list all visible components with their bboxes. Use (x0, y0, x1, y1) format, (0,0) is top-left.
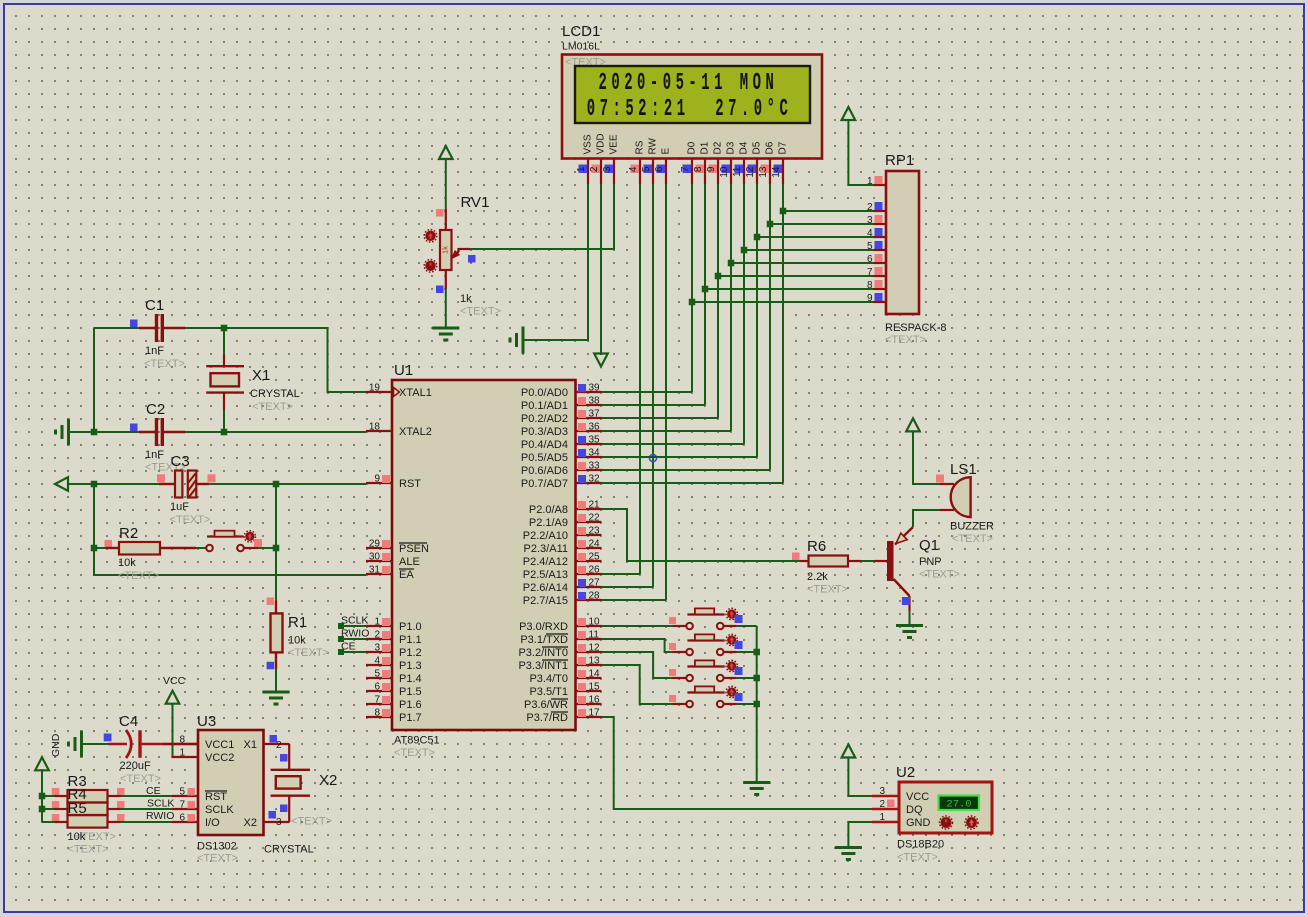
svg-text:5: 5 (179, 787, 185, 798)
ground at C2 left (69, 431, 94, 433)
svg-text:VCC: VCC (906, 791, 929, 803)
wire to XTAL1 (224, 328, 366, 392)
LCD LCD1 screen (575, 66, 810, 123)
svg-text:DS1302: DS1302 (197, 841, 237, 853)
junction D1/RP1 (702, 286, 709, 293)
LCD pin 11 D4 (743, 159, 745, 185)
U1 pin 33 P0.6/AD6 (576, 469, 602, 471)
svg-text:6: 6 (179, 813, 185, 824)
svg-text:36: 36 (589, 422, 601, 433)
wire VCC to LS1 (913, 432, 940, 485)
svg-text:RV1: RV1 (461, 194, 490, 211)
wire RP1 pin3 (770, 223, 874, 225)
svg-text:D3: D3 (726, 141, 737, 154)
RP1 pin 5 (874, 249, 887, 251)
svg-text:EA: EA (399, 569, 414, 581)
U1 pin 27 P2.6/A14 (576, 586, 602, 588)
U3 pin 7 SCLK (172, 808, 198, 810)
svg-text:P3.1/TXD: P3.1/TXD (520, 634, 568, 646)
svg-text:<TEXT>: <TEXT> (197, 853, 238, 865)
svg-text:C4: C4 (119, 713, 138, 730)
svg-text:P2.6/A14: P2.6/A14 (523, 582, 568, 594)
U1 pin 21 P2.0/A8 (576, 508, 602, 510)
svg-text:7: 7 (179, 800, 185, 811)
wire VDD to power-down (600, 184, 602, 355)
svg-text:CRYSTAL: CRYSTAL (264, 844, 314, 856)
svg-text:4: 4 (628, 166, 639, 172)
U1 pin 39 P0.0/AD0 (576, 391, 602, 393)
svg-text:<TEXT>: <TEXT> (807, 584, 848, 596)
svg-text:X1: X1 (244, 739, 257, 751)
power arrow down (VDD) (594, 354, 608, 367)
wire RV1 bottom to ground (445, 289, 447, 328)
wire P2.0 to R6 (602, 509, 801, 561)
LCD pin 4 RS (639, 159, 641, 185)
svg-text:<TEXT>: <TEXT> (897, 852, 938, 864)
U1 pin 25 P2.4/A12 (576, 560, 602, 562)
svg-text:P0.4/AD4: P0.4/AD4 (521, 439, 568, 451)
svg-text:6: 6 (654, 166, 665, 172)
svg-text:<TEXT>: <TEXT> (68, 844, 109, 856)
svg-text:2: 2 (879, 799, 885, 810)
junction D5/RP1 (754, 234, 761, 241)
svg-text:10k: 10k (68, 831, 86, 843)
wire RP1 pin9 (692, 301, 874, 303)
svg-text:35: 35 (589, 435, 601, 446)
svg-text:P2.7/A15: P2.7/A15 (523, 595, 568, 607)
U3 pin 5 RST (172, 795, 198, 797)
wire U2 GND to ground (848, 822, 872, 848)
wire C1-C2 left vertical (93, 328, 95, 432)
svg-text:1nF: 1nF (145, 449, 164, 461)
push button at P3.1 (673, 651, 687, 653)
svg-text:2020-05-11 MON: 2020-05-11 MON (599, 69, 779, 96)
svg-text:2: 2 (374, 630, 380, 641)
svg-text:Q1: Q1 (919, 537, 939, 554)
wire P0.1 to D1 (602, 404, 706, 406)
svg-text:R2: R2 (119, 525, 138, 542)
wire VCC down to U3 pin1 (173, 704, 199, 757)
wire P0.5 to D5 (602, 456, 758, 458)
wire D5 vertical (756, 184, 758, 457)
svg-text:15: 15 (589, 682, 601, 693)
transistor Q1 (874, 560, 887, 562)
U1 pin 15 P3.5/T1 (576, 690, 602, 692)
ground at buttons (743, 781, 770, 784)
wire VCC to U2 (848, 758, 872, 797)
svg-text:1nF: 1nF (145, 345, 164, 357)
svg-text:7: 7 (374, 695, 380, 706)
wire D1 vertical (704, 184, 706, 405)
wire D2 vertical (717, 184, 719, 418)
svg-text:31: 31 (369, 565, 381, 576)
U2 up button (966, 817, 977, 828)
wire X1 bottom (223, 410, 225, 432)
svg-text:LM016L: LM016L (562, 41, 600, 53)
svg-text:2.2k: 2.2k (807, 571, 828, 583)
wire RP1 pin6 (731, 262, 874, 264)
wire P0.0 to D0 (602, 391, 693, 393)
svg-text:RW: RW (648, 137, 659, 154)
svg-text:12: 12 (589, 643, 601, 654)
svg-text:P2.5/A13: P2.5/A13 (523, 569, 568, 581)
U1 pin 16 P3.6/WR (576, 703, 602, 705)
ground at U2 (835, 846, 862, 849)
svg-text:U1: U1 (394, 362, 413, 379)
svg-text:BUZZER: BUZZER (950, 521, 994, 533)
ground at RV1 (432, 327, 459, 330)
U2 temperature display (939, 796, 980, 811)
U1 pin 10 P3.0/RXD (576, 625, 602, 627)
junction D2/RP1 (715, 273, 722, 280)
svg-text:25: 25 (589, 552, 601, 563)
svg-text:P0.0/AD0: P0.0/AD0 (521, 387, 568, 399)
wire E vertical (665, 184, 667, 600)
svg-text:3: 3 (276, 817, 282, 828)
svg-text:<TEXT>: <TEXT> (460, 306, 501, 318)
resistor pack RP1 body (886, 171, 919, 314)
svg-text:33: 33 (589, 461, 601, 472)
svg-text:4: 4 (374, 656, 380, 667)
svg-text:P1.0: P1.0 (399, 621, 422, 633)
svg-text:D5: D5 (752, 141, 763, 154)
svg-text:CRYSTAL: CRYSTAL (250, 388, 300, 400)
svg-text:5: 5 (641, 166, 652, 172)
svg-text:11: 11 (589, 630, 600, 641)
U1 pin 37 P0.2/AD2 (576, 417, 602, 419)
U2 pin 3 VCC (872, 795, 899, 797)
svg-text:RESPACK-8: RESPACK-8 (885, 322, 947, 334)
wire D0 vertical (691, 184, 693, 392)
net label SCLK at P1.0 (338, 623, 344, 629)
svg-text:ALE: ALE (399, 556, 420, 568)
svg-text:28: 28 (589, 591, 601, 602)
svg-text:E: E (661, 148, 672, 155)
U2 pin 1 GND (872, 821, 899, 823)
ground at VSS (522, 327, 525, 354)
svg-text:C1: C1 (145, 297, 164, 314)
LCD pin 2 VDD (600, 159, 602, 185)
U3 pin 1 VCC2 (172, 756, 198, 758)
svg-text:1k: 1k (460, 293, 472, 305)
LCD pin 8 D1 (704, 159, 706, 185)
svg-text:LCD1: LCD1 (562, 23, 600, 40)
wire Q1 collector to ground (909, 611, 911, 626)
wire C2 row (94, 431, 139, 433)
wire D7 vertical (782, 184, 784, 483)
U1 pin 9 RST (366, 482, 392, 484)
RP1 pin 3 (874, 223, 887, 225)
svg-text:11: 11 (732, 166, 743, 177)
svg-text:<TEXT>: <TEXT> (291, 816, 332, 828)
svg-text:38: 38 (589, 396, 601, 407)
svg-text:16: 16 (589, 695, 601, 706)
svg-text:13: 13 (758, 166, 769, 178)
RP1 pin 9 (874, 301, 887, 303)
svg-text:VCC: VCC (163, 675, 186, 687)
svg-text:9: 9 (374, 474, 380, 485)
junction D6/RP1 (767, 221, 774, 228)
LCD pin 5 RW (652, 159, 654, 185)
svg-text:6: 6 (374, 682, 380, 693)
wire C2 to XTAL2 (185, 431, 366, 433)
svg-text:30: 30 (369, 552, 381, 563)
U3 pin 6 I/O (172, 821, 198, 823)
svg-text:I/O: I/O (205, 817, 220, 829)
wire RP1 pin8 (705, 288, 874, 290)
svg-text:X2: X2 (244, 817, 257, 829)
svg-text:<TEXT>: <TEXT> (288, 647, 329, 659)
svg-text:32: 32 (589, 474, 601, 485)
svg-text:<TEXT>: <TEXT> (252, 401, 293, 413)
svg-text:P0.7/AD7: P0.7/AD7 (521, 478, 568, 490)
wire RP1 pin4 (757, 236, 874, 238)
svg-text:P3.4/T0: P3.4/T0 (529, 673, 568, 685)
svg-text:24: 24 (589, 539, 601, 550)
svg-text:P1.7: P1.7 (399, 712, 422, 724)
junction D3/RP1 (728, 260, 735, 267)
power arrow VCC at C4 (166, 691, 180, 704)
junction D7/RP1 (780, 208, 787, 215)
wire C1 to X1 junction (185, 327, 224, 329)
svg-text:C2: C2 (146, 401, 165, 418)
U3 pin 2 X1 wire (264, 743, 290, 745)
wire GND to C4 (82, 743, 109, 745)
LCD pin 1 VSS (587, 159, 589, 185)
svg-text:VEE: VEE (609, 134, 620, 154)
svg-text:RWIO: RWIO (341, 628, 369, 640)
svg-text:P1.5: P1.5 (399, 686, 422, 698)
U1 pin 12 P3.2/INT0 (576, 651, 602, 653)
U1 pin 30 ALE (366, 560, 392, 562)
power arrow VCC at U2 (842, 745, 856, 758)
RP1 pin 2 (874, 210, 887, 212)
svg-text:P0.5/AD5: P0.5/AD5 (521, 452, 568, 464)
net label CE at P1.2 (338, 649, 344, 655)
wire P0.3 to D3 (602, 430, 732, 432)
svg-text:P2.2/A10: P2.2/A10 (523, 530, 568, 542)
wire D3 vertical (730, 184, 732, 431)
svg-text:R6: R6 (807, 538, 826, 555)
U1 pin 35 P0.4/AD4 (576, 443, 602, 445)
svg-text:<TEXT>: <TEXT> (170, 514, 211, 526)
svg-text:1uF: 1uF (170, 501, 189, 513)
junction D0/RP1 (689, 299, 696, 306)
svg-text:29: 29 (369, 539, 381, 550)
U1 pin 19 XTAL1 (366, 391, 392, 393)
U1 pin 6 P1.5 (366, 690, 392, 692)
svg-text:8: 8 (693, 166, 704, 172)
svg-text:2: 2 (589, 166, 600, 172)
svg-text:XTAL1: XTAL1 (399, 387, 432, 399)
svg-text:2: 2 (276, 740, 282, 751)
svg-text:1k: 1k (441, 246, 450, 254)
svg-text:10: 10 (719, 166, 730, 178)
svg-text:RP1: RP1 (885, 152, 914, 169)
U1 pin 24 P2.3/A11 (576, 547, 602, 549)
U1 pin 1 P1.0 (366, 625, 392, 627)
push button at P3.0 (673, 625, 687, 627)
junction D4/RP1 (741, 247, 748, 254)
svg-text:U2: U2 (896, 764, 915, 781)
push button reset (196, 547, 206, 549)
ground at C4 (80, 731, 83, 758)
wire P3.3 to button4 (602, 665, 673, 704)
U1 pin 22 P2.1/A9 (576, 521, 602, 523)
push button at P3.3 (673, 703, 687, 705)
svg-text:RS: RS (635, 140, 646, 154)
svg-text:34: 34 (589, 448, 601, 459)
svg-text:P3.5/T1: P3.5/T1 (529, 686, 568, 698)
svg-text:27.0: 27.0 (946, 799, 971, 811)
wire P0.4 to D4 (602, 443, 745, 445)
LCD pin 12 D5 (756, 159, 758, 185)
svg-text:GND: GND (906, 817, 931, 829)
wire RST row (68, 483, 159, 485)
U1 pin 26 P2.5/A13 (576, 573, 602, 575)
svg-text:RST: RST (205, 791, 227, 803)
U1 pin 4 P1.3 (366, 664, 392, 666)
wire C3 to RST (209, 483, 366, 485)
U1 pin 29 PSEN (366, 547, 392, 549)
svg-text:07:52:21 27.0°C: 07:52:21 27.0°C (587, 95, 793, 122)
wire RP1 pin7 (718, 275, 874, 277)
svg-text:PNP: PNP (919, 556, 942, 568)
U1 pin 23 P2.2/A10 (576, 534, 602, 536)
svg-text:3: 3 (879, 786, 885, 797)
wire P3.1 to button2 (602, 639, 673, 652)
U1 pin 7 P1.6 (366, 703, 392, 705)
svg-text:SCLK: SCLK (205, 804, 234, 816)
wire left vertical to R2/EA (94, 484, 366, 575)
svg-text:P1.1: P1.1 (399, 634, 422, 646)
U3 pin 3 X2 wire (264, 821, 290, 823)
svg-text:D2: D2 (713, 141, 724, 154)
svg-text:P3.2/INT0: P3.2/INT0 (518, 647, 568, 659)
svg-text:VSS: VSS (583, 134, 594, 154)
svg-text:10k: 10k (288, 635, 306, 647)
wire VCC to resistors (41, 770, 43, 822)
power arrow VCC above RV1 (439, 146, 453, 159)
wire buttons common vertical (756, 626, 758, 783)
svg-text:22: 22 (589, 513, 601, 524)
svg-text:P1.2: P1.2 (399, 647, 422, 659)
wire R1 to ground (275, 669, 277, 692)
wire P3.7 to DS18B20 DQ (602, 717, 873, 809)
LCD pin 14 D7 (782, 159, 784, 185)
svg-text:D7: D7 (778, 141, 789, 154)
power arrow VCC at LS1 (906, 418, 920, 431)
svg-text:<TEXT>: <TEXT> (120, 773, 161, 785)
svg-text:12: 12 (745, 166, 756, 178)
svg-text:P1.4: P1.4 (399, 673, 422, 685)
U1 pin 14 P3.4/T0 (576, 677, 602, 679)
svg-text:37: 37 (589, 409, 601, 420)
svg-text:8: 8 (374, 708, 380, 719)
svg-text:1: 1 (879, 812, 885, 823)
wire VEE to RV1 wiper (470, 184, 614, 249)
wire P3.0 to button1 (602, 625, 673, 627)
svg-text:7: 7 (680, 166, 691, 172)
LCD pin 13 D6 (769, 159, 771, 185)
wire RP1 pin2 (783, 210, 874, 212)
wire D6 vertical (769, 184, 771, 470)
svg-text:RST: RST (399, 478, 421, 490)
svg-text:<TEXT>: <TEXT> (394, 747, 435, 759)
svg-text:5: 5 (374, 669, 380, 680)
LCD LCD1 body (562, 55, 822, 159)
wire R2 node down to R1 (275, 484, 277, 601)
U1 pin 18 XTAL2 (366, 430, 392, 432)
svg-text:P3.3/INT1: P3.3/INT1 (518, 660, 568, 672)
svg-text:CE: CE (341, 641, 356, 653)
U1 pin 36 P0.3/AD3 (576, 430, 602, 432)
svg-text:RWIO: RWIO (146, 810, 174, 822)
wire VSS to ground (523, 184, 588, 340)
svg-text:U3: U3 (197, 713, 216, 730)
svg-text:3: 3 (602, 166, 613, 172)
svg-text:D1: D1 (700, 141, 711, 154)
svg-text:P1.6: P1.6 (399, 699, 422, 711)
svg-text:26: 26 (589, 565, 601, 576)
wire P2.5 to RS (602, 573, 641, 575)
wire VCC to RV1 (445, 159, 447, 209)
svg-text:14: 14 (771, 166, 782, 178)
wire RP1 pin5 (744, 249, 874, 251)
svg-text:27: 27 (589, 578, 601, 589)
ground at Q1 (896, 624, 923, 627)
svg-text:DS18B20: DS18B20 (897, 839, 944, 851)
svg-text:<TEXT>: <TEXT> (144, 358, 185, 370)
svg-text:P2.4/A12: P2.4/A12 (523, 556, 568, 568)
wire P3.2 to button3 (602, 652, 673, 678)
svg-text:13: 13 (589, 656, 601, 667)
svg-text:19: 19 (369, 383, 381, 394)
svg-text:P0.1/AD1: P0.1/AD1 (521, 400, 568, 412)
svg-text:23: 23 (589, 526, 601, 537)
svg-text:<TEXT>: <TEXT> (919, 569, 960, 581)
U1 pin 28 P2.7/A15 (576, 599, 602, 601)
svg-text:1: 1 (179, 748, 185, 759)
U1 pin 11 P3.1/TXD (576, 638, 602, 640)
RP1 pin 8 (874, 288, 887, 290)
RP1 pin 7 (874, 275, 887, 277)
svg-text:LS1: LS1 (950, 461, 977, 478)
svg-text:17: 17 (589, 708, 601, 719)
power arrow VCC at RP1 (842, 107, 856, 120)
U1 pin 13 P3.3/INT1 (576, 664, 602, 666)
svg-text:18: 18 (369, 422, 381, 433)
svg-text:SCLK: SCLK (147, 798, 174, 810)
power arrow VCC at R3-R5 (35, 757, 49, 770)
LCD pin 3 VEE (613, 159, 615, 185)
svg-text:10k: 10k (118, 557, 136, 569)
wire RS vertical (639, 184, 641, 574)
U1 pin 8 P1.7 (366, 716, 392, 718)
svg-text:P0.3/AD3: P0.3/AD3 (521, 426, 568, 438)
svg-text:D4: D4 (739, 141, 750, 154)
svg-text:D6: D6 (765, 141, 776, 154)
svg-text:P3.7/RD: P3.7/RD (526, 712, 568, 724)
wire P0.7 to D7 (602, 482, 784, 484)
wire P2.6 to RW (602, 586, 654, 588)
wire X1 top (223, 328, 225, 355)
svg-text:P2.3/A11: P2.3/A11 (524, 543, 568, 555)
LCD pin 7 D0 (691, 159, 693, 185)
chip U1 body (392, 380, 576, 730)
wire C1 row (94, 327, 139, 329)
push button at P3.2 (673, 677, 687, 679)
